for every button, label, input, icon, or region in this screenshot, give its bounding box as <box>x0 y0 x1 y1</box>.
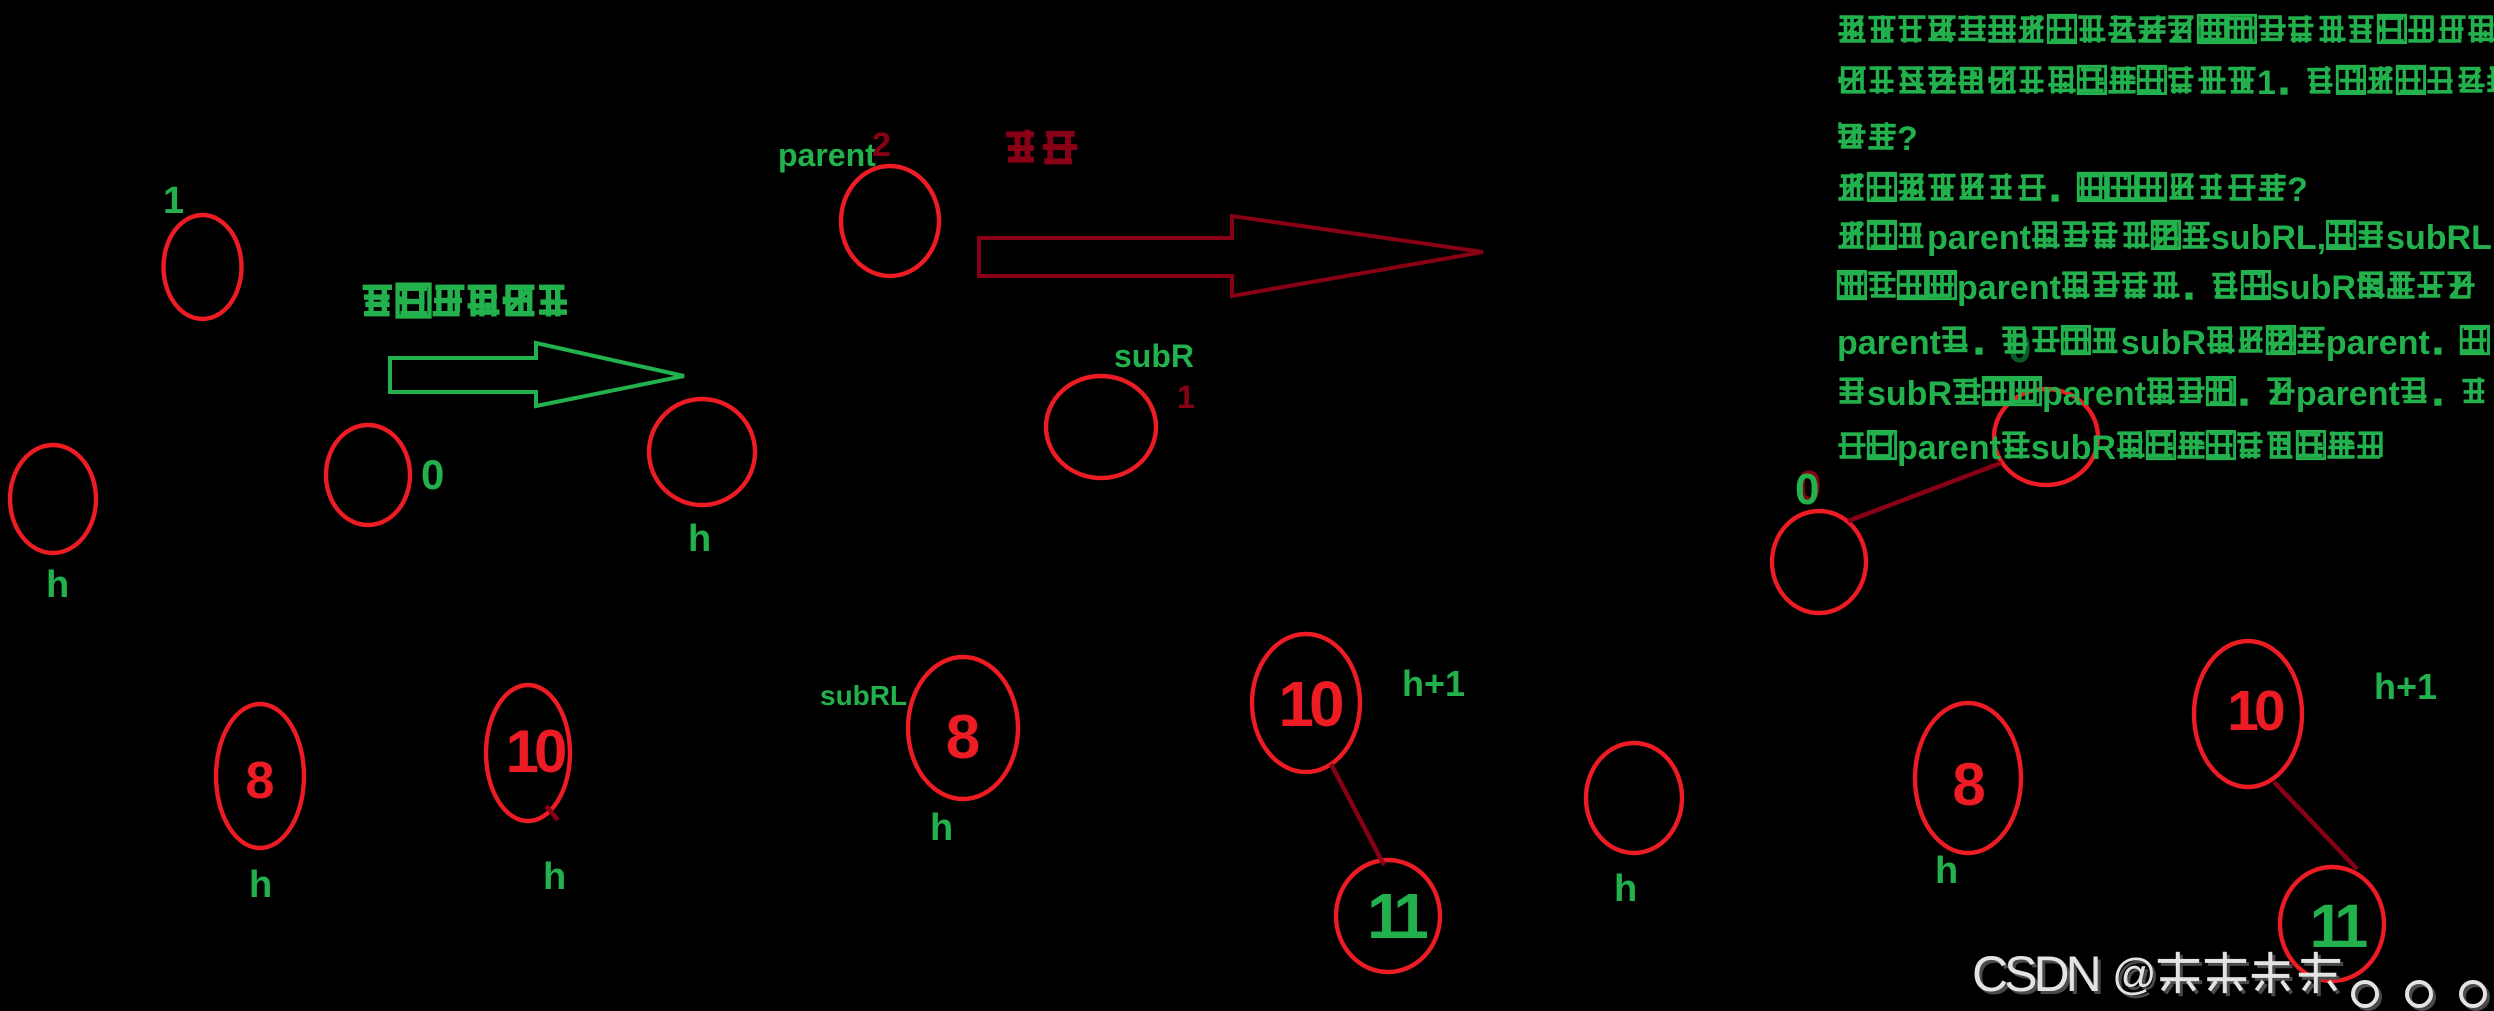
svg-text:2: 2 <box>872 126 891 164</box>
svg-text:parent: parent <box>2326 324 2430 362</box>
svg-text:CSDN: CSDN <box>1972 946 2099 1002</box>
svg-text:h: h <box>543 856 566 898</box>
svg-text:subR: subR <box>1867 375 1952 413</box>
svg-text:0: 0 <box>421 451 444 498</box>
svg-text:parent: parent <box>2042 375 2146 413</box>
svg-text:subRL: subRL <box>2386 219 2492 257</box>
svg-text:0: 0 <box>1795 465 1819 514</box>
svg-text:parent: parent <box>2296 375 2400 413</box>
svg-text:parent: parent <box>1897 429 2001 467</box>
svg-text:parent: parent <box>1957 269 2061 307</box>
svg-text:?: ? <box>2287 171 2308 209</box>
svg-text:parent: parent <box>1837 324 1941 362</box>
svg-text:parent: parent <box>1927 219 2031 257</box>
svg-text:h: h <box>930 807 953 849</box>
svg-text:11: 11 <box>1367 880 1427 952</box>
svg-text:parent: parent <box>778 137 876 173</box>
svg-text:h+1: h+1 <box>2374 666 2437 707</box>
svg-text:@: @ <box>2112 950 2157 999</box>
svg-text:h+1: h+1 <box>1402 663 1465 704</box>
svg-text:8: 8 <box>1952 751 1985 818</box>
svg-text:8: 8 <box>946 703 980 772</box>
svg-text:subR: subR <box>2121 324 2206 362</box>
svg-text:h: h <box>46 564 69 606</box>
svg-text:1: 1 <box>2257 64 2276 102</box>
svg-text:0: 0 <box>2008 324 2031 371</box>
svg-text:11: 11 <box>2310 892 2368 960</box>
svg-text:h: h <box>249 864 272 906</box>
svg-text:10: 10 <box>1278 668 1342 740</box>
svg-text:?: ? <box>1897 120 1918 158</box>
svg-text:subRL,: subRL, <box>2211 219 2326 257</box>
svg-text:subR: subR <box>2271 269 2356 307</box>
svg-text:h: h <box>1935 850 1958 892</box>
svg-text:1: 1 <box>163 180 184 222</box>
svg-text:subR: subR <box>2031 429 2116 467</box>
svg-text:h: h <box>1614 868 1637 910</box>
svg-text:10: 10 <box>506 718 565 785</box>
svg-text:8: 8 <box>246 752 275 810</box>
svg-text:h: h <box>688 518 711 560</box>
svg-text:10: 10 <box>2227 679 2284 743</box>
svg-text:subR: subR <box>1114 338 1194 374</box>
svg-text:1: 1 <box>1177 379 1195 415</box>
svg-text:subRL: subRL <box>820 680 907 711</box>
